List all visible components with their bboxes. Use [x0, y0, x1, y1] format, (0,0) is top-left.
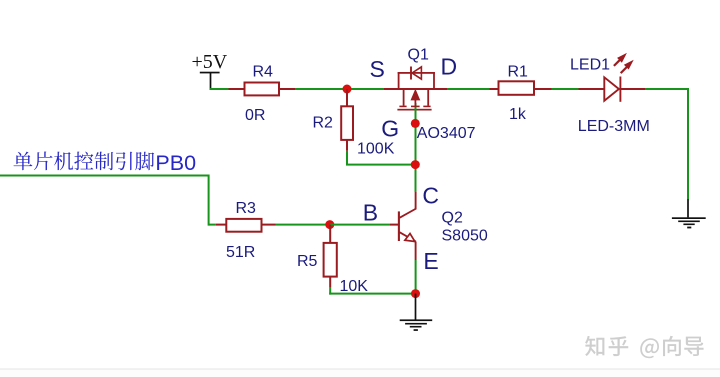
svg-text:Q2: Q2: [442, 209, 463, 226]
svg-text:S8050: S8050: [442, 227, 488, 244]
svg-text:51R: 51R: [226, 244, 255, 261]
svg-text:R3: R3: [236, 200, 257, 217]
svg-text:LED-3MM: LED-3MM: [578, 118, 650, 135]
svg-text:B: B: [363, 199, 378, 225]
svg-text:R2: R2: [313, 114, 334, 131]
svg-text:PB0: PB0: [155, 151, 196, 175]
svg-text:R1: R1: [508, 64, 529, 81]
svg-text:1k: 1k: [509, 106, 527, 123]
svg-text:D: D: [441, 53, 458, 79]
svg-text:LED1: LED1: [570, 57, 610, 74]
svg-text:C: C: [422, 182, 439, 208]
svg-text:G: G: [381, 115, 399, 141]
svg-text:0R: 0R: [245, 107, 265, 124]
svg-text:E: E: [423, 248, 438, 274]
svg-text:R4: R4: [253, 64, 274, 81]
svg-text:R5: R5: [297, 253, 318, 270]
svg-text:100K: 100K: [357, 140, 395, 157]
svg-text:10K: 10K: [340, 278, 369, 295]
svg-text:AO3407: AO3407: [417, 125, 476, 142]
svg-text:S: S: [370, 56, 385, 82]
svg-text:Q1: Q1: [408, 47, 429, 64]
svg-text:+5V: +5V: [192, 51, 228, 73]
